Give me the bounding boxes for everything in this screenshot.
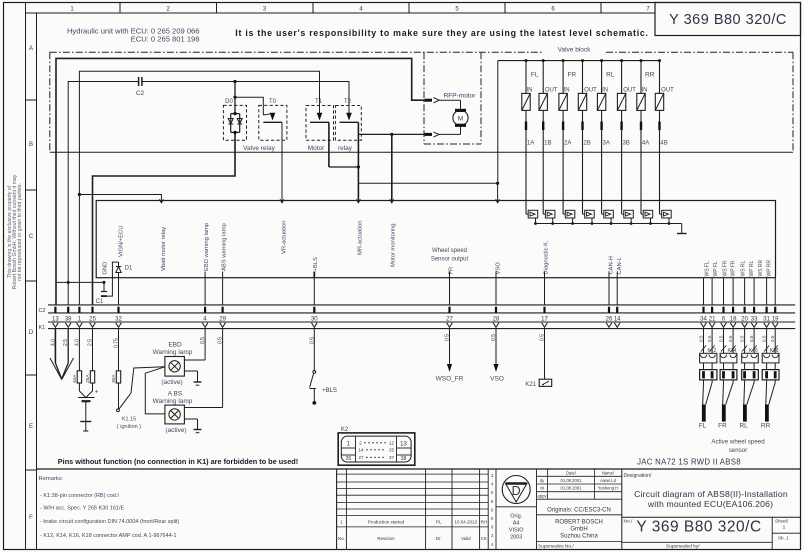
svg-text:Name/: Name/ xyxy=(602,471,615,476)
sensor circuit RR connector K18 xyxy=(761,329,779,430)
svg-text:RL: RL xyxy=(606,72,615,79)
svg-text:14: 14 xyxy=(614,316,621,322)
C2 pin 6 xyxy=(722,307,726,323)
K1 socket pin 25 xyxy=(90,323,96,328)
valve driver U7 xyxy=(641,210,653,225)
K1 socket pin 29 xyxy=(220,323,226,328)
C2 pin 29 xyxy=(219,307,226,323)
svg-text:JAC NA72 1S RWD II ABS8: JAC NA72 1S RWD II ABS8 xyxy=(637,458,741,467)
certification logo D xyxy=(496,469,537,550)
svg-text:PL: PL xyxy=(436,520,442,525)
svg-text:- K12, K14, K16, K18 connecto: - K12, K14, K16, K18 connector AMP cod. … xyxy=(40,533,177,539)
svg-text:- brake circuit configuration: - brake circuit configuration DIN 74.000… xyxy=(40,519,180,525)
svg-text:Remarks:: Remarks: xyxy=(39,476,64,482)
svg-text:Active wheel speed: Active wheel speed xyxy=(711,439,765,446)
svg-text:D: D xyxy=(512,484,521,498)
svg-text:A BS: A BS xyxy=(168,391,183,398)
svg-text:0.5: 0.5 xyxy=(699,335,704,342)
C2 pin 1 xyxy=(78,307,82,323)
svg-text:K1.15: K1.15 xyxy=(122,417,136,423)
sensor circuit FR connector K14 xyxy=(718,329,737,430)
svg-text:2B: 2B xyxy=(583,141,590,147)
svg-text:Aiwei.Ld: Aiwei.Ld xyxy=(600,478,616,483)
svg-text:38: 38 xyxy=(401,456,407,462)
svg-text:2A: 2A xyxy=(564,141,571,147)
svg-text:32: 32 xyxy=(115,316,122,322)
svg-text:IN: IN xyxy=(642,88,648,94)
svg-text:27: 27 xyxy=(446,316,453,322)
svg-text:17: 17 xyxy=(541,316,548,322)
K1 socket pin 38 xyxy=(65,323,71,328)
svg-text:37: 37 xyxy=(389,455,395,460)
svg-text:Sh. 1: Sh. 1 xyxy=(778,536,789,541)
svg-text:Suzhou China: Suzhou China xyxy=(560,534,598,540)
svg-text:Sensor output: Sensor output xyxy=(431,257,469,263)
sensor circuit RL connector K16 xyxy=(739,329,758,430)
motor relay label xyxy=(308,145,353,152)
svg-text:It is the user's responsibilit: It is the user's responsibility to make … xyxy=(235,28,648,38)
K1 socket pin 13 xyxy=(53,323,59,328)
svg-text:Pins without function (no conn: Pins without function (no connection in … xyxy=(58,457,298,466)
svg-text:- W/H acc. Spec. Y 265 K30 16: - W/H acc. Spec. Y 265 K30 161/E xyxy=(40,506,125,512)
wire pin38 to battery harness xyxy=(67,329,69,363)
svg-text:- K1:38-pin connector (RB) co: - K1:38-pin connector (RB) cod.I xyxy=(40,493,119,499)
capacitor C2 xyxy=(136,77,145,97)
valve supply bus xyxy=(498,59,661,62)
wire pin13 to battery harness xyxy=(54,329,56,363)
svg-text:Superseded by/: Superseded by/ xyxy=(666,543,700,549)
svg-text:29: 29 xyxy=(219,316,226,322)
svg-text:40A: 40A xyxy=(72,374,78,383)
transistor T2 motor relay driver xyxy=(335,99,361,167)
svg-text:3B: 3B xyxy=(623,141,630,147)
svg-text:WP FR: WP FR xyxy=(731,260,737,276)
svg-text:4A: 4A xyxy=(642,141,649,147)
top title box xyxy=(655,3,801,36)
svg-text:WP FL: WP FL xyxy=(713,261,719,276)
svg-text:RL: RL xyxy=(739,423,748,430)
svg-text:OUT: OUT xyxy=(545,88,558,94)
solenoid valve 4A (RR IN) xyxy=(637,61,649,214)
K1 socket pin 28 xyxy=(493,323,499,328)
C2 pin 17 xyxy=(541,307,548,323)
wire D0 return to pin 25 xyxy=(93,132,236,305)
svg-text:relay: relay xyxy=(338,145,353,152)
svg-text:ECU: 0 265 801 198: ECU: 0 265 801 198 xyxy=(131,35,200,44)
svg-text:GND: GND xyxy=(103,262,109,275)
svg-text:WS RL: WS RL xyxy=(741,260,747,276)
battery G1 xyxy=(78,389,99,422)
solenoid valve 2A (FR IN) xyxy=(559,61,571,214)
ECU internal pin stubs xyxy=(205,272,617,278)
svg-text:0.5: 0.5 xyxy=(749,335,754,342)
svg-text:ABS warning lamp: ABS warning lamp xyxy=(222,223,228,271)
svg-text:Motor monitoring: Motor monitoring xyxy=(391,224,397,268)
svg-text:K1: K1 xyxy=(39,325,46,331)
wire A supply to motor relay contacts and motor xyxy=(56,58,425,305)
svg-text:VIGN/+ECU: VIGN/+ECU xyxy=(118,226,124,257)
svg-text:Yusheng.H: Yusheng.H xyxy=(598,486,619,491)
transistor T1 motor relay driver xyxy=(306,99,334,167)
svg-text:Supersedes No./: Supersedes No./ xyxy=(538,543,574,549)
svg-text:T1: T1 xyxy=(315,99,323,105)
svg-text:31: 31 xyxy=(763,316,770,322)
svg-text:Vbatt motor relay: Vbatt motor relay xyxy=(161,227,167,271)
C2 pin 19 xyxy=(772,307,779,323)
svg-text:30A: 30A xyxy=(111,374,117,383)
svg-text:C: C xyxy=(29,234,34,240)
wheel speed pin labels rotated xyxy=(705,259,773,276)
C2 pin 32 xyxy=(115,307,122,323)
fuse F3 30A ignition xyxy=(111,329,121,409)
wire B with capacitor C2 xyxy=(68,82,349,306)
K1 socket pin 26 xyxy=(606,323,612,328)
svg-text:21: 21 xyxy=(709,316,716,322)
svg-text:3A: 3A xyxy=(603,141,610,147)
svg-text:25: 25 xyxy=(389,448,395,453)
svg-text:E: E xyxy=(29,424,33,430)
svg-text:RR: RR xyxy=(645,72,655,79)
svg-text:30: 30 xyxy=(311,316,318,322)
connector K1 band xyxy=(39,322,796,331)
svg-text:VSO: VSO xyxy=(490,376,504,383)
pin wires ECU to C2 xyxy=(119,278,776,305)
C2 pin 38 xyxy=(65,307,72,323)
svg-text:Y 369 B80 320/C: Y 369 B80 320/C xyxy=(636,519,761,536)
svg-text:Dr.: Dr. xyxy=(436,536,442,541)
K1 socket pin 33 xyxy=(751,323,757,328)
svg-text:WSO_FR: WSO_FR xyxy=(436,376,464,383)
svg-text:Designation/: Designation/ xyxy=(624,473,652,479)
svg-text:25: 25 xyxy=(89,316,96,322)
K1 socket pin 32 xyxy=(116,323,122,328)
fuse F1 40A xyxy=(72,329,82,391)
K1 socket pin 17 xyxy=(542,323,548,328)
svg-text:WP RL: WP RL xyxy=(749,261,755,277)
wire VR-actuation into ECU xyxy=(280,122,284,203)
K1 socket pin 30 xyxy=(312,323,318,328)
svg-text:Originals: CC/ESC3-CN: Originals: CC/ESC3-CN xyxy=(547,508,611,514)
svg-text:26: 26 xyxy=(346,456,352,462)
svg-text:C2: C2 xyxy=(136,90,145,97)
svg-text:01.08.2001: 01.08.2001 xyxy=(561,478,583,483)
solenoid valve 3A (RL IN) xyxy=(597,61,609,214)
solenoid valve 1B (FL OUT) xyxy=(539,61,558,214)
ECU pin labels rotated xyxy=(103,220,623,274)
C2 pin 28 xyxy=(493,307,500,323)
svg-text:18: 18 xyxy=(730,316,737,322)
brake light switch +BLS xyxy=(310,329,337,405)
diagnostic connector K21 xyxy=(525,329,551,388)
svg-text:28: 28 xyxy=(493,316,500,322)
valve driver U6 xyxy=(622,210,634,225)
K1 socket pin 20 xyxy=(742,323,748,328)
svg-text:14: 14 xyxy=(358,448,364,453)
motor M1 xyxy=(453,100,468,134)
diode pair D0 xyxy=(223,97,246,140)
svg-text:Date/: Date/ xyxy=(566,471,577,476)
svg-text:OUT: OUT xyxy=(661,88,674,94)
wire VIGN loop to C1 xyxy=(107,262,118,296)
svg-text:01.08.2001: 01.08.2001 xyxy=(561,486,583,491)
svg-text:Motor: Motor xyxy=(308,145,325,152)
svg-text:19: 19 xyxy=(772,316,779,322)
svg-text:D1: D1 xyxy=(125,266,133,272)
C2 pin 18 xyxy=(730,307,737,323)
sensor circuit FL connector K12 xyxy=(699,329,717,430)
wire VSO output xyxy=(490,329,504,383)
C2 pin 33 xyxy=(751,307,758,323)
C2 pin 30 xyxy=(311,307,318,323)
svg-text:appv: appv xyxy=(537,493,547,498)
svg-text:EBD: EBD xyxy=(168,342,182,349)
svg-text:OUT: OUT xyxy=(584,88,597,94)
svg-text:0.5: 0.5 xyxy=(728,335,733,342)
designation block xyxy=(622,473,801,550)
property note rotated xyxy=(7,174,23,289)
svg-text:Sheet/: Sheet/ xyxy=(775,519,789,524)
svg-text:No.: No. xyxy=(338,536,345,541)
svg-text:C1: C1 xyxy=(96,299,104,305)
document number column xyxy=(491,469,496,550)
C2 pin 4 xyxy=(203,307,207,323)
chassis ground battery xyxy=(80,422,91,432)
wire EBD to ABS daisy chain xyxy=(145,367,165,414)
ignition switch K1.15 xyxy=(117,367,165,430)
svg-text:(active): (active) xyxy=(161,379,182,386)
C2 pin 31 xyxy=(763,307,770,323)
wire MR-actuation into ECU xyxy=(329,165,361,202)
svg-text:MR-actuation: MR-actuation xyxy=(357,221,363,255)
company block xyxy=(537,469,622,550)
ABS warning lamp H2 xyxy=(153,391,193,435)
fuse F2 25A xyxy=(85,329,95,391)
svg-text:2003: 2003 xyxy=(510,535,522,541)
svg-text:WS FL: WS FL xyxy=(705,261,711,276)
K1 socket pin 14 xyxy=(614,323,620,328)
header note hydraulic unit xyxy=(67,27,200,44)
svg-text:+BLS: +BLS xyxy=(322,388,337,394)
valve driver U2 xyxy=(543,210,555,225)
C2 pin 34 xyxy=(700,307,707,323)
K1 socket pin 4 xyxy=(202,323,208,328)
svg-text:1A: 1A xyxy=(527,141,534,147)
svg-text:No./: No./ xyxy=(624,519,633,525)
title block frame xyxy=(37,469,801,550)
K1 socket pin 18 xyxy=(730,323,736,328)
svg-text:A4: A4 xyxy=(513,521,520,527)
connector K2 xyxy=(338,427,415,465)
svg-text:0.5: 0.5 xyxy=(719,335,724,342)
svg-text:20: 20 xyxy=(741,316,748,322)
svg-text:M: M xyxy=(458,116,463,123)
svg-text:FR: FR xyxy=(567,72,576,79)
wheel speed sensor output label xyxy=(431,248,469,263)
solenoid valve 2B (FR OUT) xyxy=(578,61,597,214)
K1 socket pin 6 xyxy=(721,323,727,328)
svg-text:GmbH: GmbH xyxy=(570,527,587,533)
svg-text:Orig.: Orig. xyxy=(510,514,522,520)
RFP motor boundary dash-dot xyxy=(424,52,481,144)
driver common return bus and ground xyxy=(536,224,687,234)
EBD lamp ground xyxy=(184,371,201,385)
svg-text:WS FR: WS FR xyxy=(722,260,728,276)
svg-text:RFP-motor: RFP-motor xyxy=(444,92,477,99)
svg-text:T0: T0 xyxy=(269,99,277,105)
wire WSO_FR output xyxy=(436,329,464,383)
K1 socket pin 27 xyxy=(447,323,453,328)
svg-text:27: 27 xyxy=(358,455,364,460)
harness arrow to battery plus xyxy=(50,358,74,380)
C2 pin 14 xyxy=(614,307,621,323)
active wheel speed sensor label xyxy=(711,439,765,455)
svg-text:VISIO: VISIO xyxy=(509,528,524,534)
svg-text:WP RR: WP RR xyxy=(766,260,772,277)
K1 socket pin 1 xyxy=(77,323,83,328)
svg-text:26: 26 xyxy=(606,316,613,322)
wire C to T1 and VIGN branch xyxy=(79,71,319,305)
svg-text:VR-actuation: VR-actuation xyxy=(281,220,287,254)
svg-text:10.04.2013: 10.04.2013 xyxy=(455,520,478,525)
solenoid valve 4B (RR OUT) xyxy=(655,61,674,214)
svg-text:FL: FL xyxy=(531,72,539,79)
svg-text:sensor: sensor xyxy=(729,447,748,454)
svg-text:+BLS: +BLS xyxy=(313,257,319,271)
K1 socket pin 31 xyxy=(764,323,770,328)
svg-text:( ignition ): ( ignition ) xyxy=(117,424,141,430)
hydraulic unit boundary dash-dot xyxy=(50,52,793,152)
svg-text:Warning lamp: Warning lamp xyxy=(153,349,193,356)
svg-text:Circuit diagram of ABS8(II)-In: Circuit diagram of ABS8(II)-Installation xyxy=(634,489,788,499)
valve driver U1 xyxy=(526,210,538,225)
svg-text:13: 13 xyxy=(400,442,407,448)
svg-text:1B: 1B xyxy=(544,141,551,147)
svg-text:0.5: 0.5 xyxy=(770,335,775,342)
svg-text:Valid: Valid xyxy=(461,536,471,541)
svg-text:Diagnostic K.: Diagnostic K. xyxy=(544,240,550,275)
solenoid valve 3B (RL OUT) xyxy=(617,61,636,214)
svg-text:38: 38 xyxy=(65,316,72,322)
svg-text:CK: CK xyxy=(481,536,487,541)
svg-text:WS RR: WS RR xyxy=(758,259,764,276)
C2 pin 13 xyxy=(52,307,59,323)
C2 pin 21 xyxy=(709,307,716,323)
svg-text:F: F xyxy=(29,515,33,521)
svg-text:D: D xyxy=(29,330,34,336)
svg-text:T2: T2 xyxy=(344,99,352,105)
K1 socket pin 19 xyxy=(772,323,778,328)
svg-text:FR: FR xyxy=(718,423,727,430)
motor feed arrows xyxy=(425,98,461,138)
svg-text:Valve relay: Valve relay xyxy=(243,145,275,152)
C2 pin 20 xyxy=(741,307,748,323)
svg-text:B: B xyxy=(29,142,33,148)
svg-text:with mounted ECU(EA106.206): with mounted ECU(EA106.206) xyxy=(647,499,773,509)
ECU box xyxy=(96,201,775,278)
transistor T0 valve relay driver xyxy=(259,99,287,140)
wire motor return and monitoring xyxy=(358,133,424,203)
K1 socket pin 21 xyxy=(709,323,715,328)
svg-text:Y 369 B80 320/C: Y 369 B80 320/C xyxy=(669,12,787,28)
svg-text:A: A xyxy=(29,46,33,52)
svg-text:34: 34 xyxy=(700,316,707,322)
svg-text:4B: 4B xyxy=(660,141,667,147)
svg-text:Production started: Production started xyxy=(368,520,405,525)
svg-text:(active): (active) xyxy=(165,427,186,434)
C2 pin 27 xyxy=(446,307,453,323)
valve driver U5 xyxy=(602,210,614,225)
wire Vbatt motor relay into ECU xyxy=(78,193,164,203)
svg-text:Revision: Revision xyxy=(377,536,395,541)
wire GND net to C1 xyxy=(55,281,105,284)
wire gauge labels xyxy=(50,334,545,348)
wire VVR to ECU xyxy=(358,61,499,203)
valve driver U8 xyxy=(660,210,672,225)
svg-text:EBD warning lamp: EBD warning lamp xyxy=(204,223,210,271)
svg-text:Valve block: Valve block xyxy=(558,46,592,53)
diode D1 on VIGN line xyxy=(116,262,133,278)
svg-text:IN: IN xyxy=(564,88,570,94)
ABS lamp ground xyxy=(184,419,201,433)
svg-text:Warning lamp: Warning lamp xyxy=(153,398,193,405)
svg-text:RH: RH xyxy=(481,520,488,525)
wire pin4 to EBD lamp xyxy=(184,329,205,360)
svg-text:13: 13 xyxy=(52,316,59,322)
svg-text:FL: FL xyxy=(699,423,707,430)
remarks box xyxy=(39,476,180,539)
svg-text:ROBERT BOSCH: ROBERT BOSCH xyxy=(555,520,603,526)
svg-text:IN: IN xyxy=(602,88,608,94)
svg-text:+: + xyxy=(95,389,99,396)
valve driver U4 xyxy=(583,210,595,225)
svg-text:IN: IN xyxy=(527,88,533,94)
connector C2 band xyxy=(38,305,795,314)
svg-text:0.5: 0.5 xyxy=(707,335,712,342)
svg-text:RR: RR xyxy=(761,423,771,430)
svg-text:OUT: OUT xyxy=(623,88,636,94)
solenoid valve 1A (FL IN) xyxy=(522,61,534,214)
valve driver U3 xyxy=(563,210,575,225)
svg-text:D0: D0 xyxy=(225,99,233,105)
EBD warning lamp H1 xyxy=(153,342,193,387)
svg-text:K21: K21 xyxy=(525,382,536,388)
capacitor C1 xyxy=(96,282,107,305)
C2 pin 26 xyxy=(606,307,613,323)
wire D0 top feed xyxy=(233,80,263,115)
svg-text:0.5: 0.5 xyxy=(740,335,745,342)
svg-text:1: 1 xyxy=(783,525,786,531)
svg-text:Wheel speed: Wheel speed xyxy=(432,248,467,254)
revision table xyxy=(337,469,489,550)
svg-text:12: 12 xyxy=(389,441,395,446)
svg-text:0.5: 0.5 xyxy=(762,335,767,342)
wire pin29 to ABS lamp xyxy=(184,329,222,408)
svg-text:33: 33 xyxy=(751,316,758,322)
K1 socket pin 34 xyxy=(701,323,707,328)
svg-text:not be reproduced or given to: not be reproduced or given to third part… xyxy=(17,183,23,281)
C2 pin 25 xyxy=(89,307,96,323)
svg-text:25A: 25A xyxy=(85,374,91,383)
svg-text:C2: C2 xyxy=(38,308,45,314)
